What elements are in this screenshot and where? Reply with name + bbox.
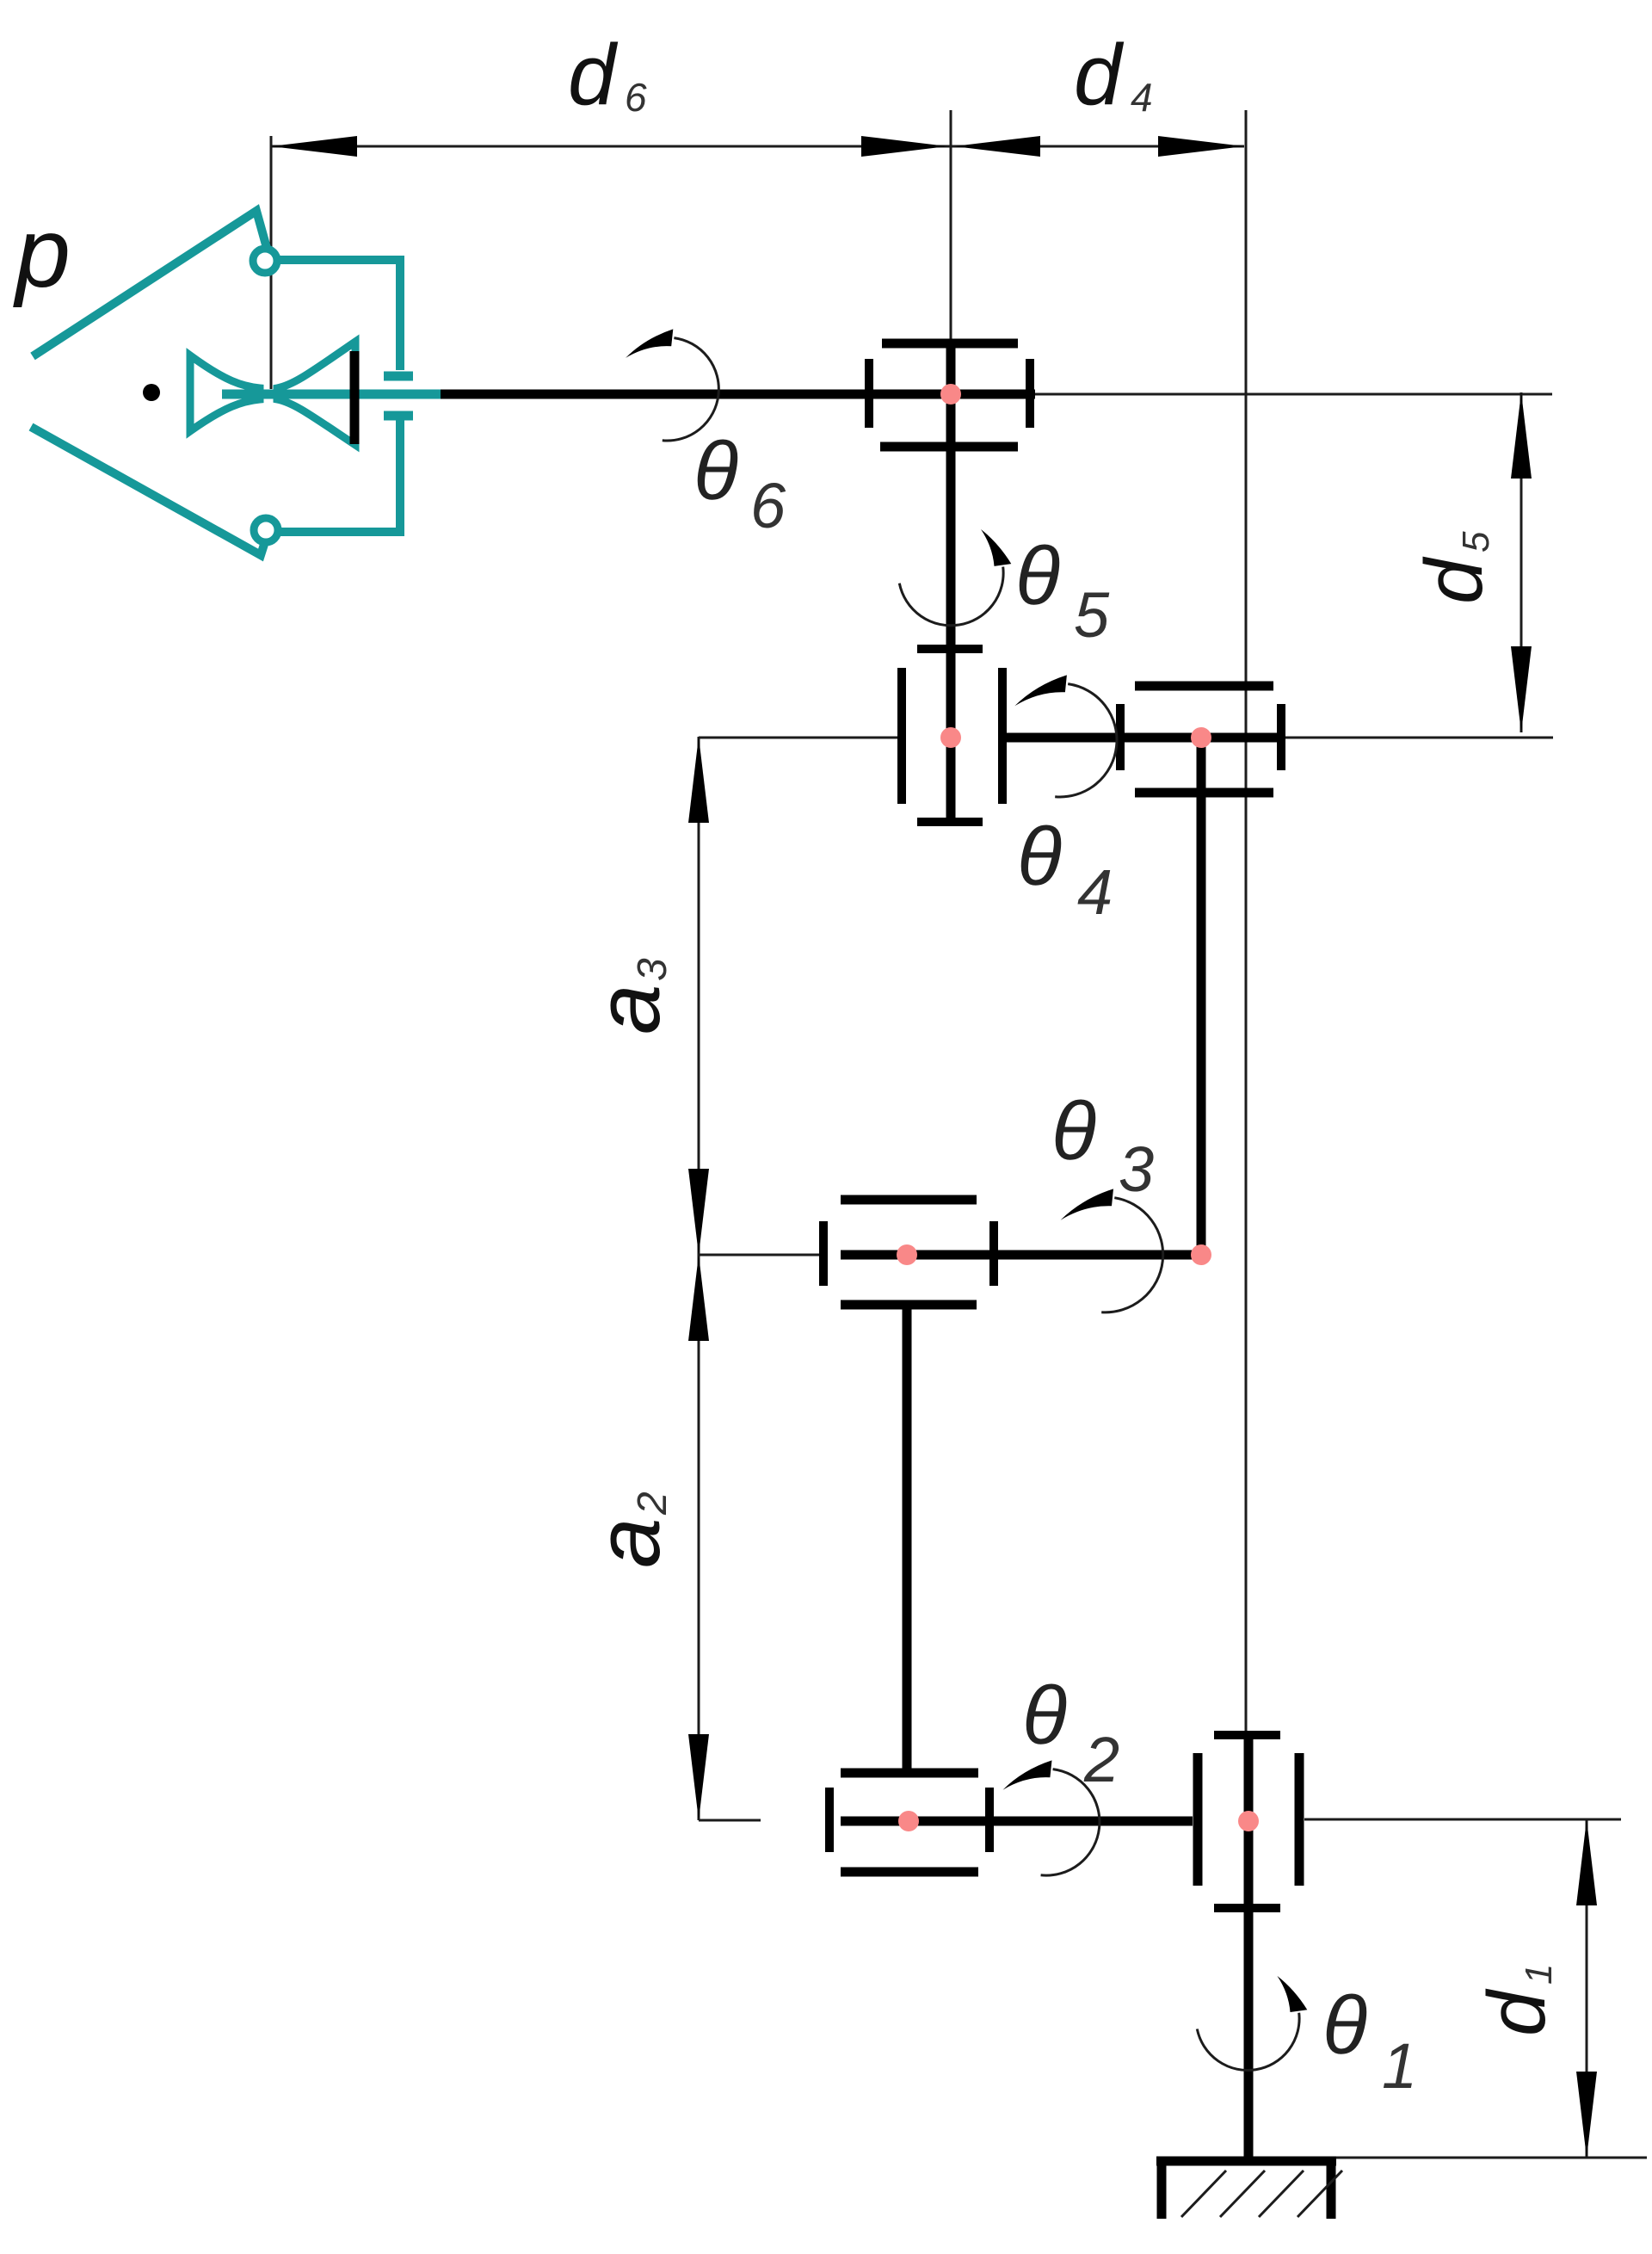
- svg-text:6: 6: [750, 470, 786, 541]
- svg-text:1: 1: [1518, 1964, 1560, 1985]
- wire: joint4 centerline thin right extension to d5: [1285, 737, 1553, 739]
- svg-text:θ: θ: [1022, 1670, 1067, 1762]
- svg-text:a: a: [578, 985, 679, 1034]
- svg-text:θ: θ: [1015, 530, 1060, 622]
- wire: shaft joint6 from gripper (link 6): [435, 390, 1035, 399]
- svg-text:p: p: [13, 198, 71, 308]
- wire: joint1 vertical axis shaft down to ground (base link): [1244, 1733, 1254, 2158]
- rotation arrow theta5: [899, 529, 1011, 626]
- wire: stub at joint2 level: [699, 1819, 761, 1822]
- wire: extension line left (x=315) down to gripper shaft: [270, 136, 273, 389]
- wire: shaft joint5 to joint4 (link 4): [1005, 733, 1285, 743]
- svg-text:d: d: [1074, 27, 1125, 123]
- ground (base hatching): [1156, 2157, 1342, 2219]
- svg-text:5: 5: [1455, 531, 1497, 553]
- joint 3 (revolute, horizontal axis): [823, 1200, 994, 1305]
- wire: vertical link joint4 down to elbow corner: [1197, 738, 1206, 1257]
- dimension a3/a2 vertical line: [698, 737, 700, 1820]
- rotation arrow theta3: [1061, 1189, 1163, 1312]
- rotation arrow theta4: [1014, 675, 1117, 797]
- rotation arrow theta2: [1003, 1760, 1100, 1875]
- wire: extension line middle (x=1105) joint6 axis: [950, 110, 952, 343]
- svg-text:6: 6: [625, 75, 647, 120]
- wire: dimension line d6/d4 at top: [271, 145, 1244, 148]
- node: joint 5 center: [940, 727, 961, 748]
- joint 2 (revolute, horizontal axis): [829, 1773, 989, 1872]
- node: joint 1 center: [1238, 1811, 1259, 1831]
- wire: shaft elbow corner to joint3 (link 3): [841, 1251, 1205, 1260]
- wire: stub at joint3 level: [699, 1254, 820, 1257]
- joint 5 (revolute, vertical axis): [902, 645, 1002, 825]
- svg-text:3: 3: [1119, 1133, 1154, 1205]
- bowtie cross piece: [190, 355, 260, 431]
- arrowheads of d4 dimension: [954, 136, 1040, 157]
- node: joint 6 center: [940, 384, 961, 404]
- wire: shaft joint2 to joint1 (link 1): [841, 1817, 1193, 1826]
- node: elbow corner: [1191, 1244, 1211, 1265]
- svg-text:4: 4: [1131, 75, 1153, 120]
- gripper end-effector (teal): [31, 211, 441, 555]
- arrowheads of d6 dimension: [271, 136, 357, 157]
- svg-text:a: a: [578, 1518, 679, 1568]
- label d5 (rotated): [1409, 531, 1500, 604]
- dimension d5 vertical line: [1520, 392, 1523, 732]
- gripper flange tick (black): [350, 351, 360, 444]
- svg-text:d: d: [1471, 1988, 1563, 2036]
- svg-text:θ: θ: [1051, 1085, 1096, 1177]
- node: joint 2 center: [898, 1811, 919, 1831]
- svg-text:5: 5: [1074, 579, 1110, 651]
- wire: joint1/joint2 horizontal centerline right extension (d1 top ref): [1304, 1819, 1621, 1821]
- joint 6 (revolute, horizontal axis): [869, 343, 1030, 447]
- svg-text:θ: θ: [1322, 1979, 1367, 2072]
- svg-text:d: d: [1409, 556, 1500, 604]
- wire: joint4/5 horizontal centerline thin left stub (a3 ref): [699, 737, 899, 739]
- joint 1 (revolute, vertical axis): [1198, 1735, 1299, 1908]
- wire: ground level line right extension (d1 bottom ref): [1336, 2157, 1647, 2159]
- rotation arrow theta6: [626, 329, 718, 441]
- dimension d1 vertical line: [1586, 1819, 1588, 2158]
- point P marker dot: [143, 384, 160, 401]
- svg-text:d: d: [568, 27, 619, 123]
- svg-text:2: 2: [630, 1491, 675, 1516]
- node: joint 4 center: [1191, 727, 1211, 748]
- wire: extension line right (x=1448) joint1 axis from d4 down to joint 1: [1245, 110, 1248, 1733]
- node: joint 3 center: [897, 1244, 917, 1265]
- svg-text:θ: θ: [1017, 811, 1062, 903]
- svg-text:3: 3: [630, 958, 675, 981]
- label d1 (rotated): [1471, 1964, 1563, 2036]
- wire: vertical link joint3 to joint2 (link 2): [903, 1306, 912, 1771]
- joint 4 (revolute, horizontal axis): [1120, 686, 1281, 793]
- svg-text:4: 4: [1077, 856, 1113, 928]
- svg-text:2: 2: [1083, 1724, 1119, 1795]
- svg-text:θ: θ: [693, 425, 738, 517]
- svg-text:1: 1: [1382, 2030, 1417, 2102]
- rotation arrow theta1: [1197, 1976, 1307, 2071]
- label a2 (rotated): [578, 1491, 679, 1568]
- label a3 (rotated): [578, 958, 679, 1034]
- wire: vertical link joint6 to joint5: [946, 341, 956, 822]
- wire: joint6 horizontal centerline thin extension to d5: [1035, 393, 1552, 396]
